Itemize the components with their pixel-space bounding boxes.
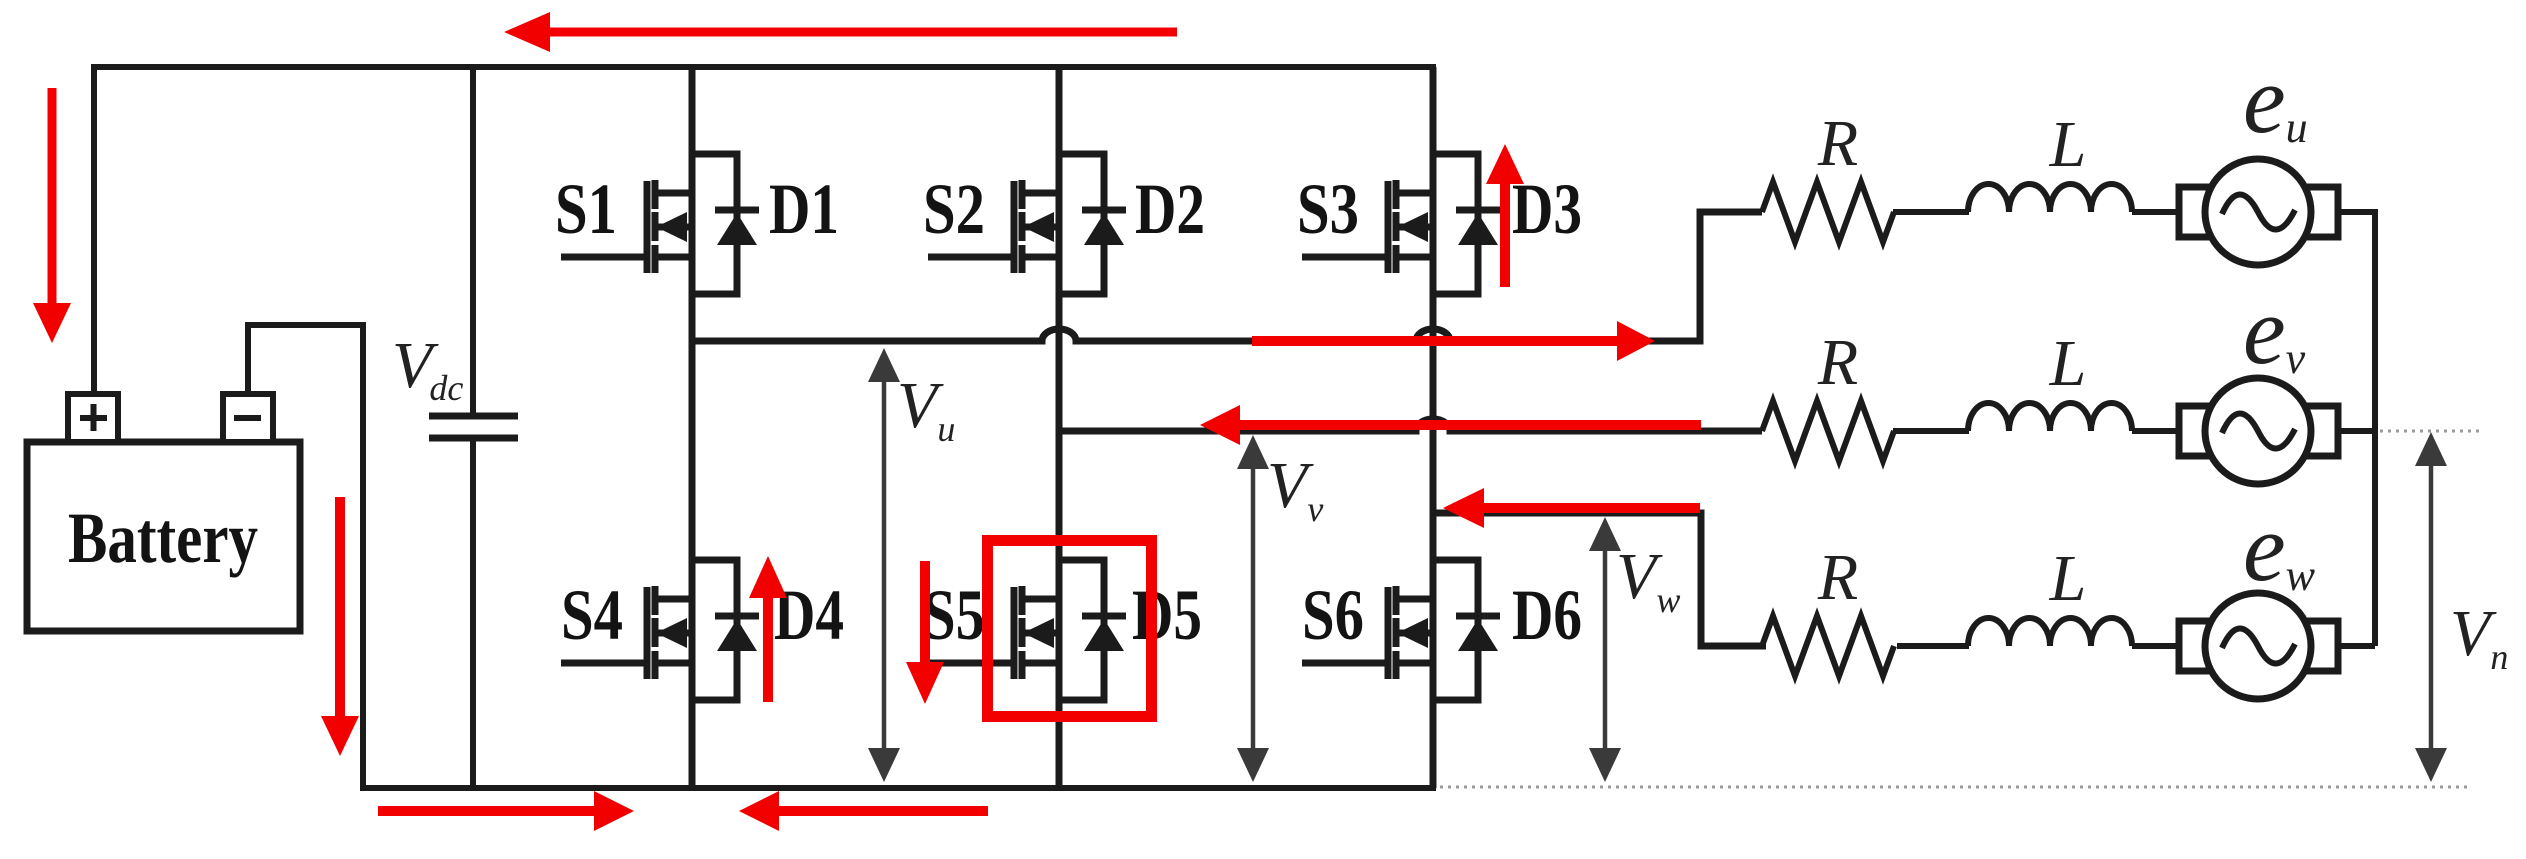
current arrow: down through S5 (906, 561, 944, 704)
svg-text:L: L (2049, 108, 2087, 181)
svg-text:eu: eu (2243, 46, 2308, 153)
highlight box around S5/D5 (988, 541, 1152, 717)
AC source e_w (back-EMF) (2179, 593, 2338, 699)
node: phase w output wire (1433, 513, 1766, 646)
svg-text:S4: S4 (561, 575, 623, 655)
svg-text:R: R (1817, 107, 1858, 180)
current arrow: phase v return leftward (1200, 405, 1701, 445)
node: phase u output wire with hops over legs 2,3 (692, 212, 1762, 341)
inductor L (phase v) (1968, 403, 2132, 431)
wire: leg 1 (phase u half-bridge) (689, 67, 696, 788)
wire: source to right bus (phase u) (2334, 209, 2378, 215)
current arrow: bottom rail rightward (378, 791, 634, 831)
wire: R to L (phase w) (1897, 643, 1969, 649)
svg-text:L: L (2049, 327, 2087, 400)
wire: R to L (phase v) (1893, 428, 1969, 434)
resistor R (phase u) (1762, 182, 1894, 242)
svg-text:L: L (2049, 542, 2087, 615)
svg-text:D2: D2 (1135, 169, 1205, 249)
measurement arrow Vn (2415, 432, 2447, 782)
diode D5 (antiparallel) (1059, 560, 1126, 700)
current arrow: battery - wire downward (321, 497, 359, 756)
wire: leg 2 (phase v half-bridge) (1056, 67, 1063, 788)
AC source e_u (back-EMF) (2179, 159, 2338, 265)
wire: source to right bus (phase w) (2334, 643, 2375, 649)
svg-text:R: R (1817, 326, 1858, 399)
current arrow: phase u output rightward (1252, 321, 1655, 361)
transistor S5 (MOSFET) (928, 586, 1059, 679)
svg-text:D5: D5 (1132, 575, 1202, 655)
svg-text:ew: ew (2243, 494, 2316, 601)
wire: top DC rail (91, 64, 1436, 70)
svg-text:D1: D1 (769, 169, 839, 249)
svg-text:S6: S6 (1302, 575, 1364, 655)
diode D3 (antiparallel) (1433, 154, 1500, 294)
transistor S6 (MOSFET) (1302, 586, 1433, 679)
svg-text:S5: S5 (923, 575, 985, 655)
svg-text:Vv: Vv (1267, 449, 1323, 529)
wire: capacitor top lead (470, 67, 476, 416)
wire: source to right bus (phase v) (2334, 428, 2378, 434)
diode D6 (antiparallel) (1433, 560, 1500, 700)
svg-text:R: R (1817, 541, 1858, 614)
transistor S4 (MOSFET) (561, 586, 692, 679)
svg-text:S1: S1 (555, 169, 617, 249)
current arrow: bottom rail leftward (into leg 1) (739, 791, 988, 831)
wire: capacitor bottom lead (470, 438, 476, 788)
capacitor Vdc plates (429, 416, 518, 438)
measurement arrow Vu (868, 348, 900, 782)
dotted neutral reference line (right, phase v level) (2380, 430, 2482, 433)
inductor L (phase u) (1968, 184, 2132, 212)
transistor S1 (MOSFET) (561, 180, 692, 273)
svg-text:Vu: Vu (897, 369, 955, 449)
resistor R (phase v) (1762, 401, 1894, 461)
wire: battery negative to bottom rail (248, 325, 363, 788)
battery: positive terminal (68, 394, 118, 442)
diode D4 (antiparallel) (692, 560, 759, 700)
measurement arrow Vv (1237, 435, 1269, 782)
inductor L (phase w) (1968, 618, 2132, 646)
wire: battery positive to top rail (91, 64, 97, 394)
wire: L to source (phase u) (2132, 209, 2183, 215)
svg-text:Vdc: Vdc (392, 329, 463, 408)
wire: R to L (phase u) (1893, 209, 1969, 215)
diode D1 (antiparallel) (692, 154, 759, 294)
wire: bottom DC rail (360, 785, 1436, 791)
dotted bottom reference line (1440, 786, 2472, 789)
current arrow: phase w return leftward (1443, 488, 1700, 528)
current arrow: battery + wire downward (33, 88, 71, 343)
wire: leg 3 (phase w half-bridge) (1430, 67, 1437, 788)
transistor S2 (MOSFET) (928, 180, 1059, 273)
svg-text:S3: S3 (1297, 169, 1359, 249)
svg-text:Vn: Vn (2450, 597, 2508, 677)
node: phase v output wire with hop over leg 3 (1059, 419, 1762, 431)
wire: L to source (phase w) (2132, 643, 2183, 649)
wire: right neutral bus (2372, 209, 2378, 646)
svg-text:Vw: Vw (1616, 540, 1680, 620)
svg-text:D4: D4 (774, 575, 844, 655)
battery: case (27, 442, 300, 631)
svg-text:S2: S2 (923, 169, 985, 249)
measurement arrow Vw (1589, 517, 1621, 782)
diode D2 (antiparallel) (1059, 154, 1126, 294)
resistor R (phase w) (1762, 616, 1894, 676)
AC source e_v (back-EMF) (2179, 378, 2338, 484)
transistor S3 (MOSFET) (1302, 180, 1433, 273)
current arrow: return to battery + (top rail, leftward) (504, 12, 1177, 52)
svg-text:Battery: Battery (68, 498, 258, 578)
wire: L to source (phase v) (2132, 428, 2183, 434)
current arrow: up through D3 (1486, 144, 1524, 287)
battery: negative terminal (223, 394, 273, 442)
svg-text:ev: ev (2243, 277, 2306, 384)
current arrow: up through D4 (749, 556, 787, 702)
svg-text:D6: D6 (1512, 575, 1582, 655)
